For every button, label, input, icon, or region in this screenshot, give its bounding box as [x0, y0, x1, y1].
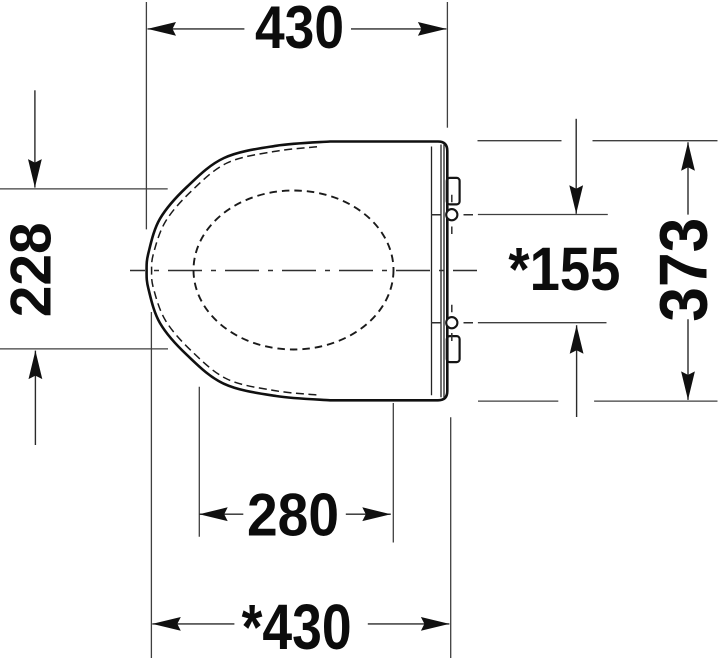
- dimension line 228 top arrow: [34, 90, 36, 187]
- arrow 155 down: [569, 185, 583, 214]
- arrow 280 left: [199, 507, 228, 521]
- dimension line 430 top: [148, 28, 447, 30]
- arrow 373 down: [681, 371, 695, 400]
- arrow 155 up: [570, 325, 584, 354]
- hinge pin circle top: [446, 209, 457, 220]
- extension line 228 bottom: [0, 348, 168, 350]
- svg-text:280: 280: [247, 481, 339, 548]
- extension line 155 bottom: [478, 322, 607, 324]
- extension line 228 top: [0, 188, 168, 190]
- center line horizontal: [130, 270, 477, 272]
- extension line 280 left: [198, 387, 200, 537]
- dimension line 373: [687, 142, 689, 400]
- dimension line 155 bottom arrow: [576, 325, 578, 417]
- arrow 280 right: [362, 507, 391, 521]
- svg-text:373: 373: [647, 218, 720, 322]
- svg-text:*155: *155: [508, 235, 620, 304]
- hinge pin circle bottom: [446, 317, 457, 328]
- extension line 280 right: [392, 403, 394, 543]
- dimension line 280: [199, 513, 391, 515]
- svg-text:228: 228: [0, 222, 63, 317]
- svg-text:430: 430: [255, 0, 344, 61]
- extension line top-left: [145, 2, 147, 229]
- seat outer outline: [147, 142, 448, 401]
- extension line 155 top: [478, 214, 608, 216]
- arrow *430 left: [152, 617, 181, 631]
- svg-text:*430: *430: [242, 591, 352, 658]
- extension line 373 bottom: [478, 400, 718, 402]
- hinge tab top: [447, 178, 460, 205]
- seat right edge inner line b: [440, 145, 442, 398]
- inner dashed ellipse (seat opening): [194, 191, 394, 350]
- arrow 430 left: [148, 22, 177, 36]
- hinge bottom center-line marks: [431, 305, 473, 341]
- arrow *430 right: [421, 617, 450, 631]
- arrow 228 down: [28, 159, 42, 188]
- hinge top center-line marks: [431, 195, 473, 234]
- extension line bottom-right: [450, 417, 452, 658]
- dimension line 228 bottom arrow: [34, 351, 36, 445]
- hinge tab bottom: [447, 336, 460, 362]
- arrow 228 up: [29, 351, 43, 380]
- seat right edge inner line c: [443, 145, 445, 398]
- arrow 430 right: [418, 22, 447, 36]
- arrow 373 up: [681, 142, 695, 171]
- seat right edge inner line a: [431, 147, 433, 396]
- dimension line *430 bottom: [152, 623, 449, 625]
- extension line bottom-left: [150, 312, 152, 658]
- seat inner dashed outline: [152, 147, 317, 395]
- extension line top-right: [446, 2, 448, 128]
- extension line 373 top: [478, 140, 718, 142]
- dimension line 155 top arrow: [575, 119, 577, 214]
